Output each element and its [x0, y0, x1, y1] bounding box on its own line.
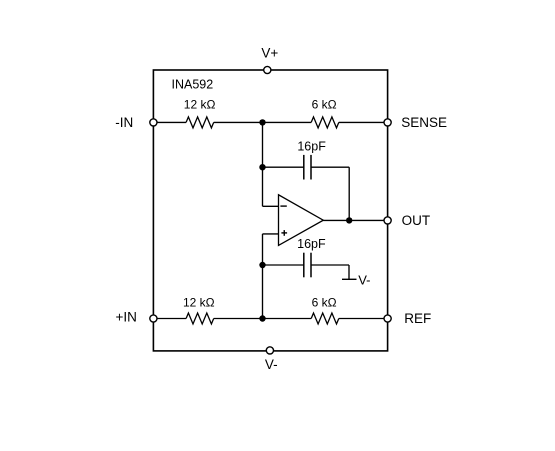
svg-text:SENSE: SENSE	[401, 115, 447, 130]
svg-text:INA592: INA592	[172, 78, 214, 92]
svg-text:16pF: 16pF	[297, 139, 326, 153]
svg-text:V+: V+	[261, 45, 278, 60]
svg-text:12 kΩ: 12 kΩ	[183, 295, 215, 309]
svg-text:6 kΩ: 6 kΩ	[312, 97, 337, 111]
svg-text:OUT: OUT	[402, 213, 431, 228]
svg-text:6 kΩ: 6 kΩ	[312, 295, 337, 309]
svg-text:V-: V-	[265, 357, 278, 372]
svg-text:-IN: -IN	[115, 115, 133, 130]
svg-text:12 kΩ: 12 kΩ	[184, 98, 216, 112]
svg-text:V-: V-	[358, 272, 370, 287]
svg-text:+IN: +IN	[116, 309, 137, 324]
svg-text:16pF: 16pF	[297, 237, 326, 251]
svg-text:REF: REF	[404, 311, 431, 326]
